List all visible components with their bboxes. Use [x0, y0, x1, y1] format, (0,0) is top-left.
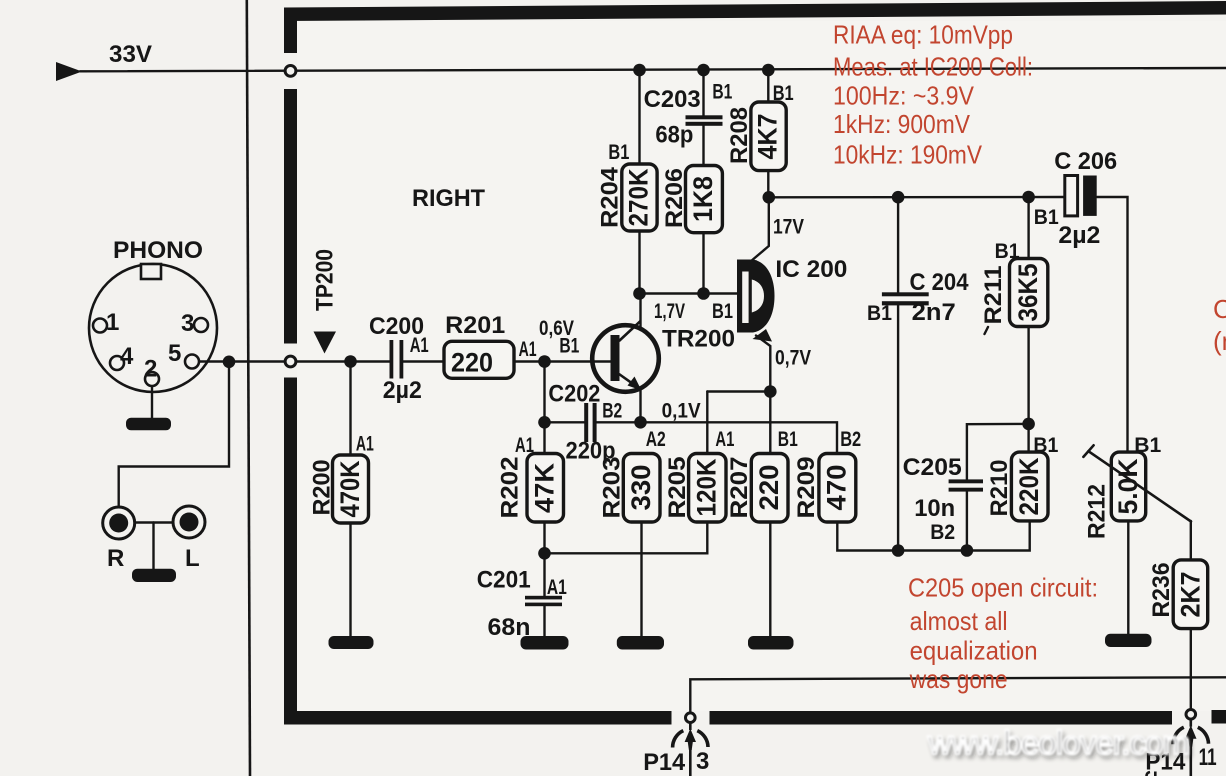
ground bar R212: [1105, 634, 1152, 647]
wire emitter jog to R205: [707, 390, 770, 392]
svg-text:2µ2: 2µ2: [383, 377, 422, 404]
R212 wiper tee: [1083, 445, 1093, 457]
node junction 33V C203: [697, 64, 710, 77]
svg-text:P14: P14: [643, 749, 686, 776]
svg-text:B1: B1: [867, 302, 892, 325]
shield frame left bar segment 1: [284, 16, 297, 53]
wire C201 bottom stem: [543, 606, 545, 637]
svg-text:R205: R205: [664, 457, 691, 519]
svg-text:L: L: [185, 545, 200, 572]
wire R212 bottom lead: [1127, 521, 1129, 635]
resistor R207 box: [751, 454, 788, 523]
svg-text:3: 3: [181, 310, 194, 337]
svg-text:5: 5: [168, 340, 181, 367]
svg-text:10n: 10n: [914, 495, 955, 522]
shield frame left bar segment 2: [284, 89, 297, 344]
wire IC200 collector: [751, 197, 769, 261]
PHONO pin 5: [185, 355, 199, 369]
wire base rail TR200 collector to IC200 base: [641, 292, 738, 294]
svg-text:equalization: equalization: [910, 636, 1038, 666]
svg-text:www.beolover.com: www.beolover.com: [927, 724, 1190, 761]
svg-text:B1: B1: [773, 82, 794, 105]
wire IC200 emitter: [756, 336, 770, 392]
node junction emitter jog: [764, 385, 777, 398]
ground bar R/L: [132, 569, 176, 582]
svg-text:C203: C203: [644, 86, 701, 113]
PHONO socket key notch: [141, 264, 161, 279]
svg-text:1kHz: 900mV: 1kHz: 900mV: [833, 109, 971, 139]
svg-text:120K: 120K: [692, 458, 722, 516]
resistor R202 box: [527, 454, 564, 523]
svg-text:A1: A1: [356, 433, 374, 456]
capacitor C206 negative plate (open): [1065, 176, 1078, 216]
svg-text:B1: B1: [1033, 434, 1058, 457]
svg-text:C201: C201: [477, 567, 531, 594]
node junction emitter bias: [634, 416, 647, 429]
RCA jack R: [103, 507, 135, 539]
svg-text:R212: R212: [1084, 484, 1111, 539]
svg-text:2K7: 2K7: [1175, 572, 1205, 618]
svg-text:B1: B1: [608, 141, 629, 164]
svg-text:R: R: [107, 545, 124, 572]
svg-text:270K: 270K: [624, 168, 654, 226]
wire collector rail to C206: [768, 196, 1064, 199]
wire R/L ground stem: [152, 523, 154, 570]
resistor R203 box: [623, 454, 660, 523]
svg-text:A1: A1: [547, 576, 567, 599]
ground bar phono: [126, 418, 171, 431]
svg-text:C202: C202: [548, 380, 600, 407]
svg-text:B1: B1: [995, 240, 1020, 263]
capacitor C206 positive plate (filled): [1083, 176, 1097, 216]
svg-text:68p: 68p: [655, 122, 693, 149]
svg-text:100Hz: ~3.9V: 100Hz: ~3.9V: [833, 81, 975, 111]
wire C202 right to emitter node: [596, 421, 641, 423]
vertical chassis line: [247, 0, 250, 776]
wire C203 top lead: [702, 70, 704, 117]
svg-text:5.0K: 5.0K: [1113, 458, 1143, 514]
transistor TR200 collector stroke: [619, 321, 641, 341]
R211 label tick mark: [985, 327, 989, 334]
svg-text:10kHz: 190mV: 10kHz: 190mV: [833, 140, 983, 170]
svg-text:C205 open circuit:: C205 open circuit:: [908, 573, 1098, 603]
svg-text:C205: C205: [903, 454, 962, 481]
resistor R236 box: [1173, 560, 1208, 629]
wire C200 to R201: [403, 360, 444, 362]
wire R200 top lead: [349, 362, 351, 456]
svg-text:B2: B2: [602, 399, 622, 422]
wire TR200 base node down to C202/R202: [543, 362, 545, 454]
svg-text:Meas. at IC200 Coll:: Meas. at IC200 Coll:: [833, 52, 1033, 82]
shield frame bottom bar segment 2: [710, 711, 1173, 725]
wire wiper to R236: [1190, 521, 1192, 560]
wire R208 bottom lead: [767, 171, 769, 198]
wire C202 left: [545, 421, 587, 423]
node junction 33V R204: [633, 64, 646, 77]
resistor R201 box: [444, 341, 514, 378]
node junction bias R211/R210/C205: [1022, 418, 1035, 431]
svg-text:R207: R207: [726, 457, 753, 519]
wire R/L jack link: [135, 521, 173, 523]
TP200 marker triangle: [314, 332, 337, 354]
svg-text:A1: A1: [715, 428, 734, 451]
capacitor C203 plates: [686, 115, 723, 119]
transistor TR200 emitter stroke: [619, 374, 638, 388]
ground bar R207: [748, 636, 794, 650]
capacitor C202 plates: [584, 403, 588, 442]
wire C203 to R206: [702, 126, 704, 166]
resistor R206 box: [686, 166, 723, 233]
svg-text:470K: 470K: [335, 460, 365, 517]
svg-text:2n7: 2n7: [912, 299, 956, 326]
svg-text:R204: R204: [597, 166, 624, 228]
node junction at TP200: [344, 355, 357, 368]
svg-text:4: 4: [120, 343, 134, 370]
resistor R210 box: [1011, 452, 1048, 521]
svg-text:1,7V: 1,7V: [654, 300, 685, 323]
node junction A1 R202/C201: [538, 547, 551, 560]
wire R204 bottom lead: [638, 231, 640, 294]
ground bar R200: [329, 636, 374, 649]
shield frame bottom bar segment 3: [1212, 710, 1226, 724]
PHONO pin 2: [145, 372, 159, 386]
node junction collector C204: [892, 191, 905, 204]
svg-text:R210: R210: [986, 460, 1013, 517]
wire R204 top lead: [638, 70, 640, 164]
svg-text:220K: 220K: [1014, 457, 1044, 515]
transistor TR200 emitter arrow: [628, 377, 642, 391]
svg-text:R202: R202: [496, 457, 523, 519]
IC200 emitter arrow: [753, 329, 773, 342]
PHONO pin 4: [110, 356, 124, 370]
svg-text:A1: A1: [519, 338, 537, 361]
wire C205 bottom lead: [966, 492, 968, 551]
wire R208 top lead: [767, 70, 769, 102]
wire C205 top jog: [967, 424, 1029, 480]
svg-text:almost all: almost all: [910, 606, 1008, 636]
svg-text:PHONO: PHONO: [113, 237, 203, 264]
transistor TR200 circle: [592, 325, 659, 392]
svg-text:TR200: TR200: [662, 325, 735, 352]
node junction 33V R208: [762, 64, 775, 77]
R212 wiper diagonal: [1088, 451, 1191, 521]
svg-text:220: 220: [451, 348, 493, 378]
svg-text:B1: B1: [712, 81, 732, 104]
svg-text:TP200: TP200: [312, 249, 339, 311]
wire pin2 down: [151, 386, 153, 418]
svg-text:(m: (m: [1213, 326, 1226, 356]
wire TR200 emitter down: [639, 388, 641, 422]
ground bar C201: [521, 636, 569, 650]
svg-text:C2: C2: [1213, 294, 1226, 324]
svg-text:R209: R209: [793, 457, 820, 519]
resistor R208 box: [751, 102, 786, 171]
svg-text:was gone: was gone: [909, 664, 1008, 694]
connector P14 pin 11 fork: [1173, 727, 1208, 744]
wire R207 bottom lead: [769, 522, 771, 637]
node junction collector R211: [1022, 191, 1035, 204]
wire pin5 node down to R/L jacks: [119, 362, 229, 507]
svg-text:68n: 68n: [488, 614, 531, 641]
node junction B2 C204: [892, 544, 905, 557]
svg-text:R208: R208: [726, 107, 753, 164]
svg-text:0,1V: 0,1V: [662, 400, 701, 423]
svg-text:4K7: 4K7: [753, 114, 783, 160]
connector P14 pin 11 circle: [1186, 710, 1196, 720]
node junction base rail R204: [633, 287, 646, 300]
wire output line: [690, 677, 1226, 712]
resistor R200 box: [333, 455, 369, 523]
connector P14 pin 3 fork: [673, 731, 708, 748]
svg-text:A1: A1: [410, 334, 429, 357]
svg-text:A1: A1: [515, 434, 534, 457]
resistor R204 box: [622, 164, 657, 231]
resistor R211 box: [1010, 259, 1048, 327]
wire R201 to TR200 base: [514, 360, 611, 362]
svg-text:B1: B1: [778, 428, 798, 451]
wire C206 right to R212: [1097, 197, 1128, 452]
ground bar R203: [617, 636, 664, 650]
wire C204 bottom lead: [897, 305, 899, 550]
svg-text:R200: R200: [309, 460, 336, 516]
node on frame for phono input (open circle): [285, 356, 296, 367]
svg-text:36K5: 36K5: [1013, 264, 1043, 322]
svg-text:R206: R206: [661, 168, 688, 228]
wire R205 top lead: [706, 392, 708, 454]
svg-text:B1: B1: [559, 334, 579, 357]
svg-text:2µ2: 2µ2: [1058, 222, 1100, 249]
wire R203 bottom lead: [640, 522, 642, 637]
svg-text:47K: 47K: [530, 462, 560, 513]
wire R211 bottom lead to R210: [1027, 327, 1029, 453]
svg-text:R211: R211: [980, 266, 1007, 325]
wire R202 bottom lead: [543, 522, 545, 596]
svg-text:2: 2: [144, 356, 157, 383]
svg-text:C 204: C 204: [910, 269, 970, 296]
PHONO DIN socket outline: [89, 264, 217, 392]
svg-text:B2: B2: [840, 428, 861, 451]
shield frame left bar segment 3: [284, 378, 297, 725]
wire R211 top lead: [1027, 197, 1029, 259]
wire R236 bottom to P14 pin 11: [1190, 629, 1192, 709]
node junction B2 C205: [961, 544, 974, 557]
svg-text:IC 200: IC 200: [775, 256, 847, 283]
svg-text:1: 1: [106, 309, 119, 336]
svg-text:11: 11: [1199, 744, 1217, 771]
svg-text:RIGHT: RIGHT: [412, 185, 485, 212]
capacitor C205 plates: [949, 479, 983, 483]
wire R207 top lead: [769, 392, 771, 454]
svg-text:C 206: C 206: [1054, 148, 1117, 175]
wire bias line to R209: [641, 422, 838, 453]
svg-text:A2: A2: [646, 428, 666, 451]
svg-text:RIAA eq: 10mVpp: RIAA eq: 10mVpp: [833, 20, 1013, 50]
svg-text:B1: B1: [1034, 206, 1059, 229]
node on frame for 33V (open circle): [285, 66, 296, 77]
svg-text:0,7V: 0,7V: [775, 347, 811, 370]
PHONO pin 1: [93, 319, 107, 333]
33V input arrow: [56, 62, 82, 81]
svg-text:220: 220: [754, 465, 784, 511]
svg-text:R201: R201: [445, 312, 505, 339]
capacitor C201 plates: [525, 596, 562, 600]
svg-text:3: 3: [696, 748, 709, 775]
RCA jack L: [173, 506, 205, 538]
svg-text:470: 470: [822, 465, 852, 511]
node junction C202 left: [538, 416, 551, 429]
resistor R209 box: [819, 454, 856, 523]
connector P14 pin 3 circle: [686, 713, 696, 723]
capacitor C204 plates: [882, 292, 929, 296]
svg-text:1K8: 1K8: [688, 176, 718, 222]
svg-text:B1: B1: [1134, 434, 1161, 457]
svg-text:B1: B1: [712, 300, 733, 323]
wire C204 top lead: [897, 197, 899, 292]
wire R200 bottom lead: [349, 523, 351, 637]
transistor TR200 base bar: [611, 335, 620, 381]
cut-off text fragment below P14 pin 11: [1147, 772, 1151, 776]
wire R206 bottom lead: [702, 233, 704, 294]
node junction base: [538, 355, 551, 368]
svg-text:330: 330: [626, 465, 656, 511]
node junction pin5/RL: [223, 356, 236, 369]
svg-text:33V: 33V: [109, 41, 152, 68]
shield frame bottom bar segment 1: [284, 711, 672, 725]
resistor R212 box (pot): [1111, 452, 1145, 521]
capacitor C200 plates: [390, 340, 394, 379]
PHONO pin 3: [194, 318, 208, 332]
resistor R205 box: [689, 454, 726, 523]
wire TR200 collector up: [639, 294, 641, 330]
svg-text:R203: R203: [599, 457, 626, 519]
phono input wire to C200: [199, 360, 390, 362]
svg-text:B2: B2: [930, 521, 955, 544]
wire node A1 to R205 bottom: [545, 522, 708, 553]
svg-text:R236: R236: [1148, 563, 1175, 618]
svg-text:17V: 17V: [773, 216, 804, 239]
node junction collector R208: [763, 191, 776, 204]
node junction base rail R206: [697, 287, 710, 300]
33V supply rail wire: [80, 68, 1226, 71]
IC200 symbol body: [737, 260, 775, 333]
wire R209 bottom to B2 node: [837, 521, 1029, 551]
shield frame top bar: [284, 1, 1226, 21]
